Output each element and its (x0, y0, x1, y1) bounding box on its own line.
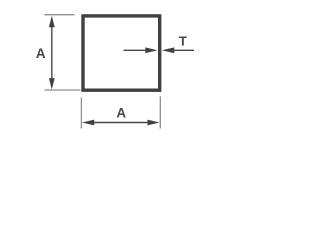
svg-text:A: A (36, 46, 46, 61)
arrowhead right-bottom (148, 120, 160, 126)
arrowhead down (49, 78, 55, 90)
square tube outline (83, 16, 160, 90)
extension line bottom dimension right (159, 96, 161, 128)
arrowhead up (49, 16, 55, 28)
arrowhead left-bottom (82, 120, 94, 126)
svg-text:A: A (116, 105, 126, 120)
extension line bottom dimension left (80, 98, 82, 129)
svg-text:T: T (179, 34, 187, 49)
dimension line T left segment (124, 49, 148, 51)
extension line bottom-left (45, 89, 81, 91)
arrowhead right (points at wall from left) (145, 47, 157, 53)
dimension line A horizontal (93, 122, 150, 124)
arrowhead left (points at wall from right) (162, 47, 174, 53)
dimension line A vertical (51, 25, 53, 80)
dimension line T right segment (173, 49, 194, 51)
extension line top-left (45, 14, 75, 16)
